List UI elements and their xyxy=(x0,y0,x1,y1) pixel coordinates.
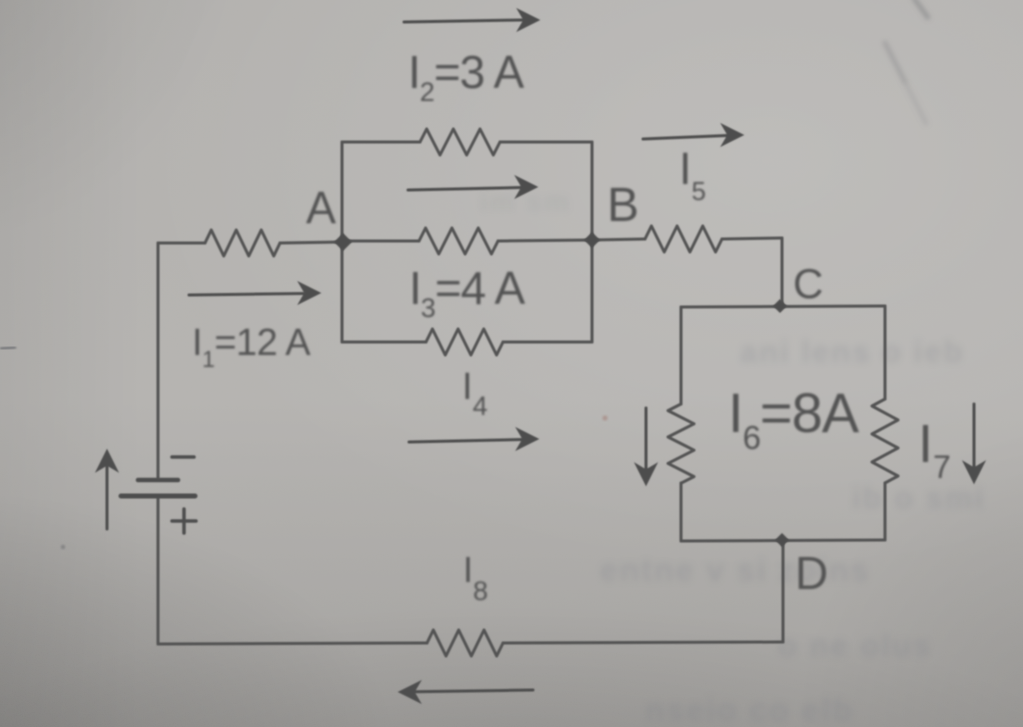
wire top branch left segment xyxy=(342,141,420,144)
node A junction dot xyxy=(334,233,352,251)
wire top-left horizontal to R1 xyxy=(158,242,205,245)
ghost bleed-through text row 3 xyxy=(600,552,870,589)
current arrow I1 head xyxy=(301,285,318,302)
resistor R8 (I8 branch) xyxy=(427,630,503,656)
current arrow I3 shaft xyxy=(408,188,521,191)
wire corner down to node C xyxy=(781,238,784,306)
wire right-loop right vertical upper xyxy=(884,306,887,399)
current arrow I8 shaft (points left) xyxy=(415,690,533,692)
node D junction dot xyxy=(775,533,789,547)
battery current arrow shaft (points up) xyxy=(106,466,109,529)
wire bottom right segment xyxy=(503,642,783,643)
svg-text:C: C xyxy=(793,260,823,307)
wire bottom left segment xyxy=(158,643,427,644)
wire R1 to node A xyxy=(280,242,342,243)
resistor R7 (I7 branch) xyxy=(872,399,898,483)
stray reddish dot xyxy=(602,415,607,420)
current arrow I4 shaft xyxy=(409,440,522,443)
current arrow I6 shaft (points down) xyxy=(645,408,648,469)
current arrow I2 head xyxy=(520,12,537,29)
current arrow I1 shaft xyxy=(189,294,303,296)
wire middle branch right segment xyxy=(498,240,592,241)
battery negative plate (short bar) xyxy=(138,478,178,483)
wire top branch right segment xyxy=(500,141,592,144)
resistor R4 (I4 branch) xyxy=(426,329,503,355)
battery current arrow head xyxy=(99,452,116,469)
stray dot left xyxy=(61,545,65,549)
ghost bleed-through text row 5 xyxy=(645,692,854,727)
svg-text:D: D xyxy=(795,547,828,599)
wire right-loop left vertical upper xyxy=(680,307,683,404)
wire A-loop right vertical xyxy=(591,142,594,342)
current arrow I6 head xyxy=(638,466,655,483)
resistor R2 (I2 branch) xyxy=(420,129,500,155)
svg-text:A: A xyxy=(306,182,336,233)
battery minus sign xyxy=(172,455,194,459)
battery positive plate (long bar) xyxy=(121,494,195,499)
ghost bleed-through text row 2 xyxy=(852,480,985,516)
current arrow I7 head xyxy=(966,464,983,481)
current arrow I5 shaft xyxy=(643,136,727,140)
current arrow I7 shaft (points down) xyxy=(973,404,976,467)
ghost bleed-through text row 1 xyxy=(740,334,964,370)
wire A-loop left vertical xyxy=(341,142,344,342)
current arrow I3 head xyxy=(518,179,535,196)
wire R5 to corner xyxy=(722,238,782,239)
svg-text:B: B xyxy=(607,179,639,232)
node B junction dot xyxy=(584,232,600,248)
current arrow I2 shaft xyxy=(404,20,522,22)
wire left vertical upper (source to R1 wire) xyxy=(157,243,160,478)
battery plus sign xyxy=(172,509,196,533)
resistor R1 (I1 branch) xyxy=(205,230,280,256)
current arrow I5 head xyxy=(724,127,741,144)
resistor R6 (I6 branch) xyxy=(668,404,694,483)
pen mark stroke top-right a xyxy=(913,0,929,19)
wire bottom branch right segment xyxy=(503,341,592,344)
pen mark stroke top-right b xyxy=(884,41,906,84)
wire right-loop left vertical lower xyxy=(680,483,683,541)
wire left vertical lower (battery to bottom wire) xyxy=(157,498,160,644)
current arrow I4 head xyxy=(519,431,536,448)
pen mark stroke top-right c xyxy=(906,84,927,125)
wire middle branch left segment xyxy=(342,240,419,243)
wire right-loop top xyxy=(681,306,885,307)
node C junction dot xyxy=(773,299,787,313)
current arrow I8 head xyxy=(401,684,418,701)
ghost bleed-through smudge mid-left xyxy=(480,186,571,218)
wire node D stub down xyxy=(782,540,785,642)
ghost bleed-through text row 4 xyxy=(778,628,932,664)
wire right-loop bottom xyxy=(681,540,885,541)
stray mark left margin xyxy=(0,347,16,349)
resistor R3 (I3 branch) xyxy=(419,228,498,254)
resistor R5 (I5 branch) xyxy=(645,226,722,252)
wire bottom branch left segment xyxy=(342,341,426,344)
wire node B to R5 xyxy=(592,239,645,240)
wire right-loop right vertical lower xyxy=(884,483,887,540)
